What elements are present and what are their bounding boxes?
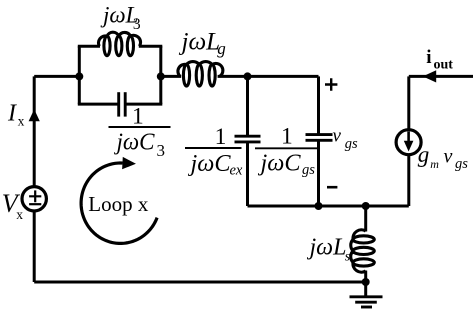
node dot Cgs bottom xyxy=(315,202,323,210)
tank bottom branch wire right xyxy=(126,103,162,106)
tank right vertical wire xyxy=(159,46,162,104)
svg-text:3: 3 xyxy=(157,141,166,160)
wire Lg to node N1 and on to Cgs corner xyxy=(218,75,319,78)
svg-text:jωC: jωC xyxy=(187,151,231,177)
loop x arc xyxy=(81,163,157,243)
current source arrow head xyxy=(404,141,414,152)
node dot tank left xyxy=(75,72,83,80)
svg-text:x: x xyxy=(16,207,23,222)
Ls branch lower stub xyxy=(364,271,367,283)
svg-text:gs: gs xyxy=(302,162,315,178)
svg-text:1: 1 xyxy=(215,124,227,150)
bottom capacitor rail xyxy=(248,205,409,208)
svg-text:s: s xyxy=(345,249,351,264)
tank top branch wire right stub xyxy=(139,45,163,48)
current source branch lower wire xyxy=(407,155,410,206)
current source circle U1 xyxy=(396,130,421,155)
svg-text:gs: gs xyxy=(345,136,358,152)
svg-text:3: 3 xyxy=(133,16,141,33)
svg-text:v: v xyxy=(444,145,453,167)
wire tank to Lg xyxy=(161,75,181,78)
svg-text:jωC: jωC xyxy=(114,129,156,155)
Vx minus bar xyxy=(29,203,41,205)
ground bar 1 xyxy=(350,295,383,298)
inductor Ls coil xyxy=(351,230,375,272)
ground bar 2 xyxy=(355,301,377,304)
tank bottom branch wire left xyxy=(78,103,118,106)
tank left vertical wire xyxy=(78,46,81,104)
vgs minus sign xyxy=(327,186,337,189)
ground bar 3 xyxy=(361,306,372,309)
svg-text:g: g xyxy=(217,39,226,58)
voltage source Vx circle xyxy=(22,187,46,211)
svg-text:jωC: jωC xyxy=(257,150,301,176)
wire top-left horizontal xyxy=(34,75,79,78)
capacitor Cgs plates xyxy=(306,133,333,136)
node dot tank right xyxy=(157,72,165,80)
wire left vertical upper (Ix branch) xyxy=(33,76,36,186)
tank top branch wire left stub xyxy=(78,45,100,48)
ground stub xyxy=(364,282,367,297)
svg-text:m: m xyxy=(430,157,439,171)
svg-text:1: 1 xyxy=(281,124,293,150)
vgs plus sign xyxy=(325,78,337,90)
inductor L3 coil xyxy=(98,32,140,56)
Cex branch upper wire xyxy=(246,76,249,136)
node dot N1 xyxy=(244,72,252,80)
Cex branch lower wire xyxy=(246,142,249,206)
current source branch upper wire xyxy=(407,76,410,129)
svg-text:out: out xyxy=(434,58,454,73)
wire left vertical lower xyxy=(33,211,36,282)
svg-text:ex: ex xyxy=(230,163,243,179)
loop x arrow head xyxy=(122,157,136,169)
svg-text:I: I xyxy=(7,101,17,127)
svg-text:1: 1 xyxy=(132,104,144,130)
Ls branch upper stub xyxy=(364,206,367,232)
node dot Ls top xyxy=(362,202,370,210)
svg-text:v: v xyxy=(333,125,342,146)
Ix arrow head xyxy=(29,109,40,121)
current source internal arrow shaft xyxy=(407,132,410,142)
wire bottom main xyxy=(34,281,366,284)
i_out arrow head xyxy=(423,70,436,82)
fraction bar Cex xyxy=(185,147,242,149)
capacitor C3 plates xyxy=(117,92,120,116)
svg-text:g: g xyxy=(418,142,430,167)
capacitor Cex plates xyxy=(235,135,261,138)
Cgs branch upper wire xyxy=(317,76,320,134)
Vx plus sign xyxy=(29,190,41,202)
svg-text:i: i xyxy=(426,47,431,68)
svg-text:gs: gs xyxy=(455,156,468,172)
inductor Lg coil xyxy=(178,62,223,87)
svg-text:jωL: jωL xyxy=(307,234,347,260)
node dot Ls bottom xyxy=(362,278,370,286)
svg-text:Loop x: Loop x xyxy=(88,192,149,216)
fraction bar C3 xyxy=(109,126,171,128)
svg-text:x: x xyxy=(18,113,25,128)
svg-text:jωL: jωL xyxy=(179,28,221,55)
i_out wire xyxy=(409,75,473,78)
fraction bar Cgs xyxy=(255,147,317,149)
Cgs branch lower wire xyxy=(317,140,320,206)
